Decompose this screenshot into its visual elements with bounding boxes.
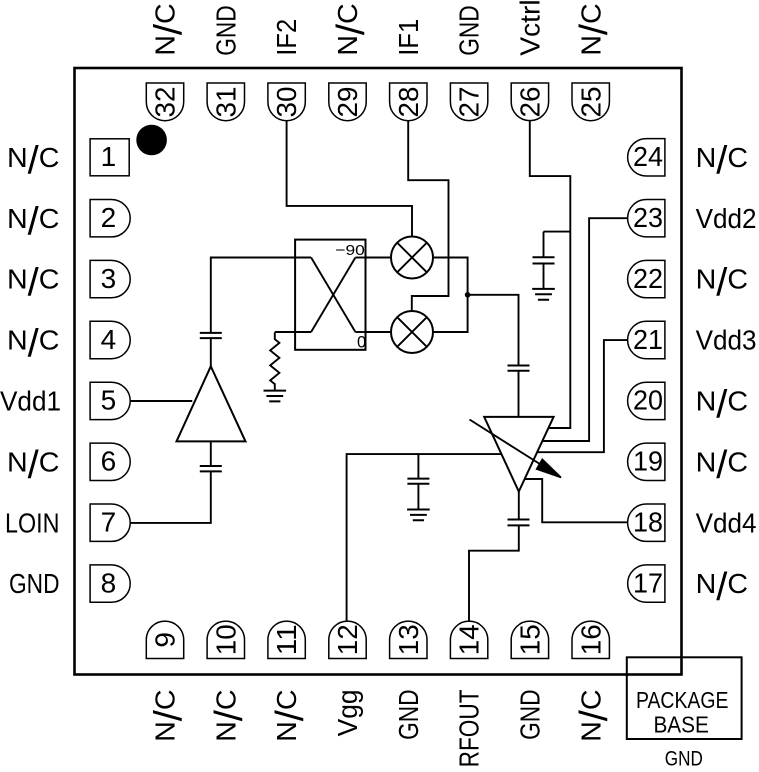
pin 14 pad	[450, 621, 487, 658]
wire Vdd3 pin21 to VGA	[537, 340, 628, 452]
svg-text:29: 29	[332, 87, 363, 118]
svg-text:19: 19	[633, 446, 663, 477]
pin 2 pad	[90, 200, 130, 237]
pin 17 pad	[628, 565, 665, 602]
wire Vdd4 VGA to pin18	[524, 479, 628, 522]
svg-text:PACKAGE: PACKAGE	[636, 687, 729, 713]
svg-text:IF1: IF1	[393, 19, 424, 56]
wire LO amp apex to C1	[210, 338, 212, 366]
svg-text:6: 6	[101, 446, 117, 477]
pin 6 pad	[90, 443, 130, 480]
wire bus to C4	[468, 295, 519, 366]
svg-text:11: 11	[271, 624, 302, 655]
svg-text:32: 32	[150, 87, 181, 118]
capacitor C5 (Vgg bypass)	[407, 479, 429, 484]
svg-text:15: 15	[515, 624, 546, 655]
pin 18 pad	[628, 504, 665, 541]
wire C2 to LO amp base	[210, 441, 212, 466]
pin 10 pad	[207, 621, 244, 658]
svg-text:−90: −90	[335, 242, 365, 259]
ground G1 below resistor	[264, 391, 287, 402]
wire Vdd2 pin23 to VGA	[543, 218, 628, 441]
wire hybrid top-right stub	[355, 257, 365, 259]
pin 19 pad	[628, 443, 665, 480]
pin 12 pad	[329, 621, 366, 658]
pin 4 pad	[90, 321, 130, 358]
svg-text:5: 5	[101, 385, 117, 416]
svg-text:GND: GND	[210, 5, 241, 56]
wire Vgg cap branch	[417, 454, 419, 479]
wire hybrid bottom-left stub	[295, 331, 311, 333]
svg-text:LOIN: LOIN	[5, 507, 60, 538]
pin 28 pad	[390, 83, 427, 121]
svg-text:RFOUT: RFOUT	[454, 689, 485, 767]
wire hybrid bottom-right stub	[355, 331, 365, 333]
capacitor C3 (Vctrl bypass)	[533, 257, 555, 263]
svg-text:13: 13	[393, 624, 424, 655]
svg-text:23: 23	[633, 202, 663, 233]
wire C6 to RFOUT pin14	[469, 525, 519, 622]
resistor R1 (hybrid termination)	[270, 332, 279, 390]
wire IF2 pin30 to mixer M1	[287, 121, 412, 237]
svg-text:Vdd3: Vdd3	[696, 325, 757, 356]
svg-text:25: 25	[575, 87, 606, 118]
svg-text:17: 17	[633, 567, 663, 598]
svg-text:8: 8	[101, 567, 117, 598]
svg-text:4: 4	[101, 324, 117, 355]
svg-text:16: 16	[575, 624, 606, 655]
wire hybrid iso-port to resistor	[275, 331, 296, 333]
pin 7 pad	[90, 504, 130, 541]
svg-text:2: 2	[101, 202, 117, 233]
svg-text:GND: GND	[665, 747, 703, 771]
ground G2 below C3	[532, 289, 555, 300]
wire Vdd1 pin5 to LO amp	[130, 400, 193, 402]
mixer M2 (bottom)	[391, 311, 433, 353]
pin 24 pad	[628, 139, 665, 176]
svg-text:GND: GND	[454, 5, 485, 56]
wire hybrid top-left stub	[295, 257, 311, 259]
mixer M1 (top)	[391, 237, 433, 279]
svg-text:20: 20	[633, 385, 663, 416]
wire hybrid cross diagonal 1	[311, 258, 355, 333]
wire hybrid -90 port to mixer M1	[366, 257, 392, 259]
pin 23 pad	[628, 200, 665, 237]
svg-text:GND: GND	[393, 689, 424, 740]
svg-text:9: 9	[150, 632, 181, 648]
pin 13 pad	[390, 621, 427, 658]
svg-text:Vctrl: Vctrl	[515, 0, 546, 56]
pin 22 pad	[628, 260, 665, 297]
capacitor C4 (RF amp input)	[508, 366, 530, 371]
pin 27 pad	[450, 83, 487, 121]
pin 25 pad	[572, 83, 609, 121]
svg-text:28: 28	[393, 87, 424, 118]
svg-text:21: 21	[633, 324, 663, 355]
svg-text:1: 1	[101, 141, 117, 172]
wire C4 to RF amp top	[518, 371, 520, 417]
pin 20 pad	[628, 382, 665, 419]
wire C5 to ground	[417, 484, 419, 510]
svg-text:GND: GND	[9, 568, 60, 599]
VGA gain-control arrow	[470, 420, 562, 478]
wire LOIN pin7 up to C2	[130, 471, 211, 523]
pin 26 pad	[511, 83, 548, 121]
capacitor C1 (LO inter-stage)	[200, 333, 222, 338]
pin 3 pad	[90, 260, 130, 297]
wire IF1 pin28 to mixer M2	[408, 121, 448, 311]
pin 30 pad	[268, 83, 305, 121]
wire VGA apex to C6	[518, 492, 520, 520]
wire Vctrl cap branch	[544, 231, 571, 233]
package base box	[627, 657, 742, 770]
svg-text:Vgg: Vgg	[332, 689, 363, 736]
capacitor C2 (LO input)	[200, 466, 222, 471]
svg-text:12: 12	[332, 624, 363, 655]
pin 11 pad	[268, 621, 305, 658]
svg-text:Vdd1: Vdd1	[0, 386, 61, 417]
svg-text:IF2: IF2	[271, 19, 302, 56]
svg-text:18: 18	[633, 507, 663, 538]
pin 15 pad	[511, 621, 548, 658]
svg-text:14: 14	[454, 624, 485, 655]
pin 32 pad	[146, 83, 183, 121]
svg-text:31: 31	[210, 87, 241, 118]
svg-text:10: 10	[210, 624, 241, 655]
svg-text:22: 22	[633, 263, 663, 294]
junction node	[465, 292, 471, 298]
wire C1 up and right to hybrid	[211, 258, 296, 333]
wire Vgg pin12 to VGA input side	[347, 454, 502, 622]
svg-text:7: 7	[101, 507, 117, 538]
svg-text:BASE: BASE	[653, 712, 709, 738]
wire Vctrl pin26 to VGA	[530, 121, 571, 428]
svg-text:GND: GND	[515, 689, 546, 740]
svg-text:Vdd2: Vdd2	[696, 203, 757, 234]
pin 8 pad	[90, 565, 130, 602]
pin 1 pad	[90, 139, 129, 176]
wire hybrid 0 port to mixer M2	[366, 331, 392, 333]
svg-text:24: 24	[633, 141, 663, 172]
svg-text:30: 30	[271, 87, 302, 118]
svg-text:26: 26	[515, 87, 546, 118]
pin 5 pad	[90, 382, 130, 419]
pin 9 pad	[146, 621, 183, 658]
wire C3 to ground	[543, 264, 545, 289]
capacitor C6 (RF output)	[508, 520, 530, 526]
wire mixer outputs combine bus	[433, 258, 468, 333]
chip outline box	[75, 68, 682, 675]
pin 21 pad	[628, 321, 665, 358]
svg-text:27: 27	[454, 87, 485, 118]
pin 31 pad	[207, 83, 244, 121]
wire hybrid cross diagonal 2	[311, 258, 355, 333]
svg-text:Vdd4: Vdd4	[696, 507, 757, 538]
pin 16 pad	[572, 621, 609, 658]
pin 1 indicator dot	[136, 125, 167, 156]
svg-text:0: 0	[357, 333, 366, 351]
svg-text:3: 3	[101, 263, 117, 294]
LO amplifier A1	[177, 366, 246, 441]
quadrature hybrid box	[295, 240, 366, 352]
pin 29 pad	[329, 83, 366, 121]
wire branch down to C3	[543, 232, 545, 258]
RF output VGA amplifier A2	[484, 417, 553, 492]
ground G3 below C5	[407, 510, 430, 521]
